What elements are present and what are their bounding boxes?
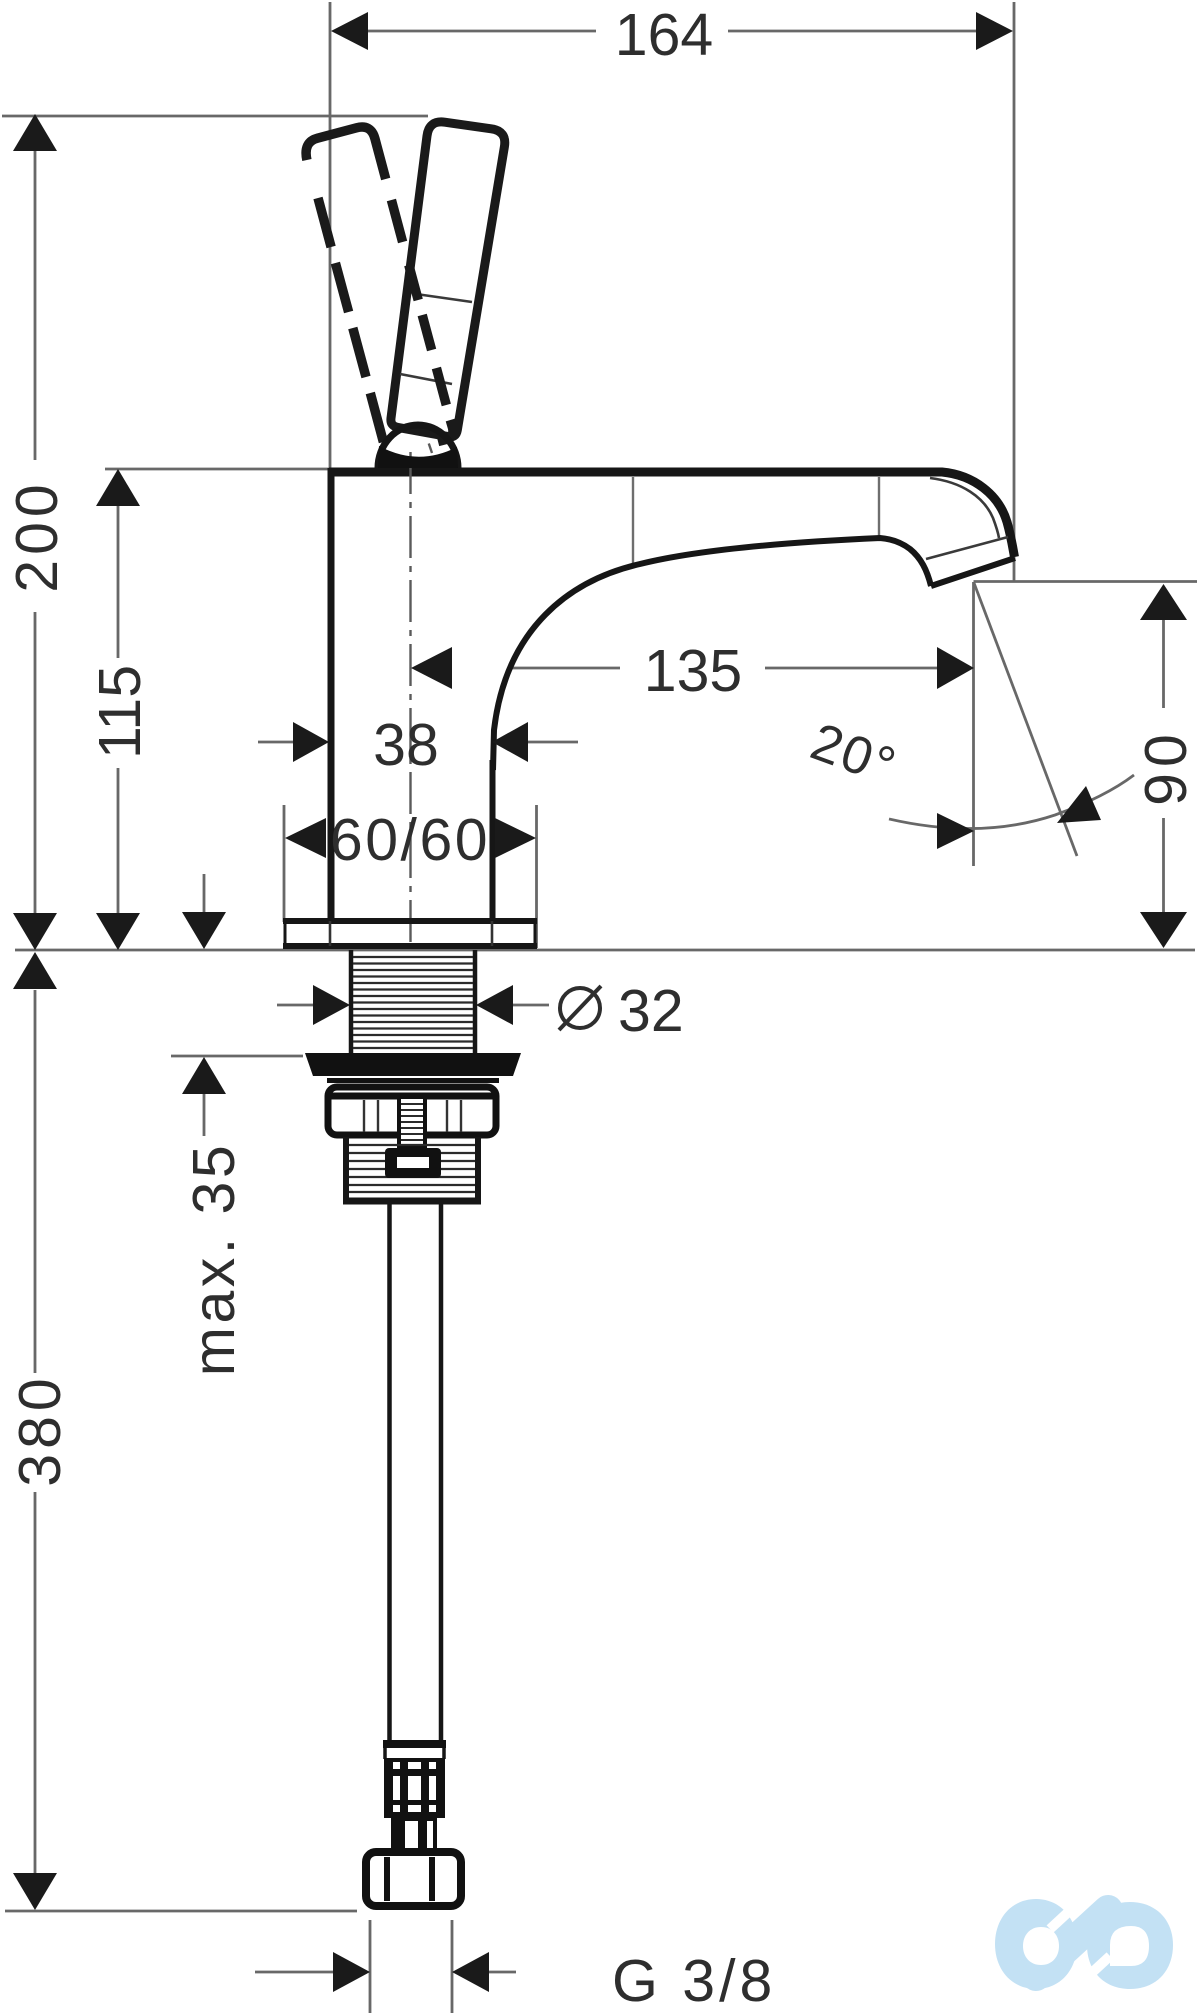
supply hose left wall: [387, 1202, 392, 1742]
handle lever (closed position, solid): [391, 122, 505, 437]
dimension line G3/8 (left tail): [255, 1971, 334, 1974]
arrowhead dim 135 left: [411, 647, 452, 689]
mounting nut flats: [364, 1100, 461, 1132]
dimension line 90 (upper segment): [1162, 619, 1165, 708]
handle lever (open position, dashed): [306, 127, 453, 442]
aerator line: [926, 537, 1008, 559]
svg-text:135: 135: [644, 638, 742, 704]
extension line: top of dim 200 (handle top): [2, 115, 428, 118]
extension line: left of dim 164 (faucet rear edge): [329, 2, 332, 469]
arrowhead dim 380 top: [13, 952, 57, 989]
arrowhead dim 164 right: [976, 12, 1013, 50]
arrowhead dim diameter32 right: [476, 985, 513, 1025]
arrowhead dim 380 bottom: [13, 1873, 57, 1910]
dimension line diameter 32 (left tail): [277, 1004, 314, 1007]
extension line: right of dim G3/8: [451, 1920, 454, 2013]
bottom reference line (hose end): [5, 1910, 357, 1913]
svg-text:90: 90: [1133, 728, 1199, 806]
dimension line diameter 32 (right tail): [512, 1004, 549, 1007]
lower shank block: [343, 1137, 481, 1201]
leader tail of mounting-surface arrow: [203, 874, 206, 914]
faucet column right edge: [490, 760, 496, 921]
hose end collar: [383, 1740, 446, 1748]
dimension line 135 (left segment): [452, 667, 620, 670]
arrowhead dim 115 bottom: [96, 913, 140, 950]
arrowhead dim diameter32 left: [313, 985, 350, 1025]
svg-text:380: 380: [7, 1373, 73, 1486]
watermark logo diagonal band: [1036, 1910, 1108, 1976]
arrowhead dim G3/8 left: [333, 1952, 370, 1992]
escutcheon plate bottom edge: [283, 943, 537, 949]
extension line: left of dim 60/60 (escutcheon): [283, 805, 286, 922]
dimension line 115 (lower segment): [117, 768, 120, 913]
escutcheon tick left: [329, 921, 332, 946]
drain rod clamp: [385, 1148, 441, 1178]
faucet column left edge: [328, 468, 335, 921]
arrowhead dim 90 bottom: [1140, 912, 1187, 948]
watermark logo left hole: [1023, 1927, 1059, 1965]
threaded shank: [351, 950, 475, 1054]
escutcheon plate top edge: [283, 918, 537, 924]
arrowhead dim 200 bottom: [13, 913, 57, 950]
spout underside curve: [493, 538, 931, 770]
svg-text:G 3/8: G 3/8: [612, 1948, 776, 2014]
drain rod clamp slot: [397, 1157, 429, 1168]
watermark logo gaps: [1050, 1893, 1110, 1992]
mounting nut top band: [331, 1093, 493, 1100]
dimension line 115 (upper segment): [117, 506, 120, 658]
svg-text:38: 38: [373, 712, 439, 778]
centre line (dash-dot): [408, 383, 432, 949]
arrowhead dim 38 right: [492, 722, 528, 762]
extension line: right of dim 164 (spout tip): [1013, 2, 1016, 581]
extension line: right of dim 60/60 (escutcheon): [535, 805, 538, 948]
dimension line 200 (upper segment): [34, 150, 37, 460]
handle pivot dark base: [378, 446, 458, 468]
leader tail of max.35 arrow: [203, 1094, 206, 1136]
arrowhead dim 90 top: [1140, 584, 1187, 620]
slanted 20 deg stream line: [974, 583, 1077, 856]
svg-text:max. 35: max. 35: [181, 1142, 247, 1376]
arrowhead mounting surface pointer: [182, 912, 226, 949]
watermark logo right hole: [1110, 1926, 1149, 1966]
washer lower rim: [327, 1078, 499, 1083]
extension line: left of dim G3/8: [369, 1920, 372, 2013]
extension line: top of dim 90 (outlet height): [974, 580, 1198, 583]
angular dimension arc 20 deg: [889, 775, 1134, 829]
dimension line 38 (left tail): [258, 741, 294, 744]
arrowhead dim 135 right: [937, 647, 974, 689]
escutcheon left edge: [284, 921, 287, 946]
hose neck right edge: [442, 1748, 446, 1759]
escutcheon tick right: [491, 921, 494, 946]
dimension line 135 (right segment): [765, 667, 938, 670]
svg-text:32: 32: [618, 978, 684, 1044]
ribbed neck: [391, 1818, 437, 1854]
dimension line 164 (right segment): [728, 30, 977, 33]
arrowhead dim 200 top: [13, 114, 57, 151]
svg-text:200: 200: [4, 479, 70, 592]
dimension line 38 (right tail): [528, 741, 578, 744]
mounting nut body: [328, 1087, 496, 1135]
dimension line G3/8 (right tail): [488, 1971, 516, 1974]
faucet body white fill: [331, 468, 1015, 921]
handle overlap line (lower): [400, 374, 452, 384]
seal washer: [305, 1053, 521, 1076]
arrowhead dim G3/8 right: [452, 1952, 489, 1992]
arrowhead dim 164 left: [331, 12, 368, 50]
arrowhead 20 deg arc right: [1057, 786, 1101, 823]
arrowhead dim 115 top: [96, 469, 140, 506]
escutcheon right edge: [534, 921, 537, 946]
spout inner bend line: [930, 478, 999, 538]
crimp sleeve: [384, 1758, 445, 1818]
dimension line 380 (upper segment): [34, 990, 37, 1373]
hose union nut G3/8: [366, 1852, 461, 1906]
extension line: spout outlet vertical (dim 135 right / 20 deg): [972, 582, 975, 866]
threaded pull rod: [399, 1097, 425, 1146]
arrowhead dim max.35: [182, 1057, 226, 1094]
arrowhead dim 38 left: [293, 722, 329, 762]
spout outlet face: [931, 558, 1015, 586]
extension line: top of dim max.35 (washer top): [171, 1055, 303, 1058]
handle overlap line (upper): [416, 294, 472, 302]
svg-text:60/60: 60/60: [330, 807, 490, 873]
watermark logo right loop: [1087, 1902, 1173, 1989]
dimension line 90 (lower segment): [1162, 818, 1165, 913]
spout joint line (outer): [878, 477, 880, 537]
diameter symbol: [559, 986, 601, 1030]
handle pivot dome: [378, 425, 458, 468]
arrowhead dim 60/60 left: [285, 818, 326, 858]
watermark logo left loop: [995, 1899, 1077, 1989]
hose neck left edge: [383, 1748, 387, 1759]
supply hose right wall: [439, 1202, 444, 1742]
svg-text:164: 164: [615, 2, 713, 68]
spout joint line (inner): [632, 477, 634, 566]
dimension line 164 (left segment): [367, 30, 596, 33]
arrowhead 20 deg arc left: [937, 813, 974, 849]
arrowhead dim 60/60 right: [495, 818, 536, 858]
extension line: top of dim 115 (body top): [105, 468, 330, 471]
faucet top edge and spout outer curve: [329, 472, 1015, 557]
mounting surface line: [15, 949, 1195, 952]
svg-text:115: 115: [87, 665, 153, 759]
dimension line 380 (lower segment): [34, 1492, 37, 1873]
dimension line 200 (lower segment): [34, 612, 37, 913]
